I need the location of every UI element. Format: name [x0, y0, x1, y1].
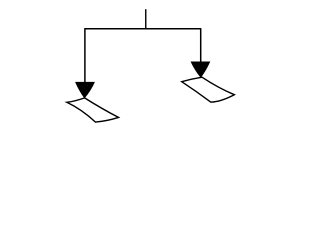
card: left parallelogram — [67, 98, 119, 122]
wire: horizontal distribution bar — [85, 28, 201, 30]
wire: top stub — [145, 9, 147, 29]
card: right parallelogram — [182, 77, 235, 102]
arrowhead: right — [191, 62, 210, 77]
arrowhead: left — [76, 82, 95, 98]
wire: left drop — [84, 28, 86, 83]
wire: right drop — [200, 28, 202, 62]
